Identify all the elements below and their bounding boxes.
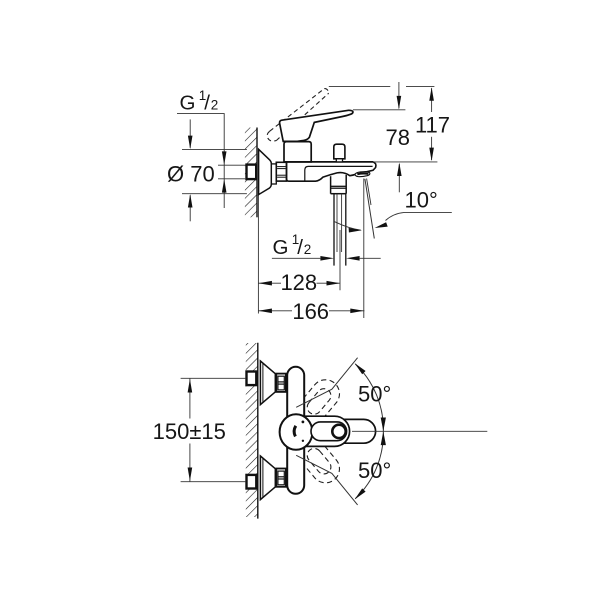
10 deg angle arc with arrow — [335, 222, 361, 231]
svg-text:117: 117 — [415, 113, 450, 138]
wall hatch (front view) — [246, 343, 258, 517]
G1/2 wall union square — [247, 165, 257, 180]
Ø70 extension lines — [182, 148, 247, 150]
G1/2 top leader line — [177, 114, 224, 208]
svg-text:150±15: 150±15 — [153, 419, 226, 444]
dimension 150 +/- 15 — [181, 377, 246, 379]
G1/2 bottom leader + arrows — [272, 257, 321, 259]
top union nut — [276, 374, 286, 392]
line C: body top extension — [374, 161, 437, 163]
10 deg leader with arrow — [386, 212, 452, 220]
svg-text:2: 2 — [304, 242, 312, 257]
dashed handle rotated down 50 deg — [294, 435, 345, 488]
top escutcheon cone — [260, 361, 275, 405]
collar between cone and nut — [271, 164, 276, 184]
water stream lines (10 deg) — [365, 179, 374, 239]
diverter knob — [334, 144, 345, 159]
G1/2 top arrowheads — [222, 151, 227, 165]
wall face line — [256, 128, 258, 218]
diverter knob stem — [336, 159, 342, 162]
bottom union square — [247, 475, 257, 489]
svg-text:/: / — [297, 236, 303, 259]
slot end ring — [332, 425, 345, 438]
svg-text:10°: 10° — [405, 188, 438, 213]
Ø70 arrowheads — [188, 136, 193, 150]
lever slot — [311, 422, 347, 441]
svg-text:128: 128 — [280, 270, 317, 295]
wall extension line down to 128/166 dimensions — [257, 195, 259, 314]
svg-text:G: G — [273, 236, 289, 259]
pivot ellipse — [280, 414, 313, 450]
lever main capsule — [283, 416, 350, 446]
indicator marks on ellipse — [302, 421, 305, 424]
hex union nut (side view) — [276, 162, 286, 181]
lever handle (closed, solid) — [280, 110, 353, 141]
svg-text:50°: 50° — [358, 458, 391, 483]
vertical body capsule — [287, 367, 304, 494]
outlet centre extension line (166) — [363, 179, 365, 319]
spout internal edge line — [305, 166, 373, 181]
aerator lens — [355, 172, 370, 177]
mixer body top surface line — [284, 161, 373, 163]
body + spout lower outline — [287, 162, 376, 181]
escutcheon cone (side view) — [259, 149, 272, 194]
50 deg upper reference line — [296, 358, 357, 408]
label G1/2 (bottom of top view) — [273, 232, 312, 259]
lever grip capsule — [310, 419, 376, 443]
line B: closed lever tip level — [353, 109, 406, 111]
Ø70 arrow stems — [189, 119, 191, 147]
handle neutral centreline — [352, 430, 487, 432]
upper 50 deg arc — [355, 364, 383, 431]
top union square — [247, 372, 257, 386]
label G1/2 (top) — [180, 88, 219, 115]
bottom union nut — [276, 469, 286, 487]
dashed handle rotated up 50 deg — [294, 374, 345, 427]
lower 50 deg arc — [355, 431, 383, 498]
wall hatch (side view) — [245, 128, 257, 218]
svg-text:/: / — [204, 92, 210, 115]
lever handle raised (dashed) — [267, 89, 329, 142]
svg-text:2: 2 — [211, 98, 219, 113]
line A: open lever tip level — [329, 86, 391, 88]
bottom escutcheon cone — [260, 456, 275, 500]
wall face line — [257, 343, 259, 519]
svg-text:50°: 50° — [358, 382, 391, 407]
shower hose collar under body — [330, 176, 332, 194]
svg-text:166: 166 — [292, 299, 329, 324]
svg-text:G: G — [180, 92, 196, 115]
shower hose tube — [333, 194, 335, 266]
G1/2 top extension lines — [218, 164, 245, 166]
svg-text:78: 78 — [386, 125, 410, 150]
svg-text:Ø 70: Ø 70 — [167, 161, 215, 186]
cartridge housing — [284, 142, 311, 162]
hose centreline extension — [339, 230, 341, 290]
50 deg lower reference line — [296, 455, 357, 505]
